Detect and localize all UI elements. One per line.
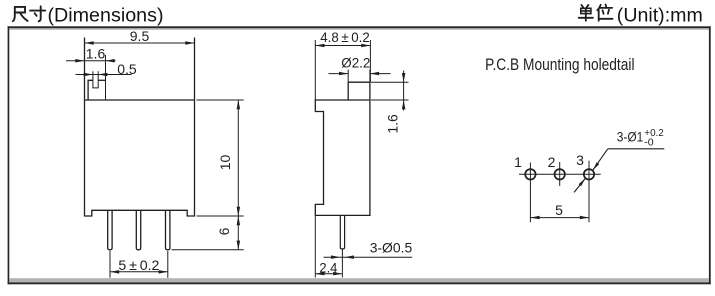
dim 1.6 (66, 46, 116, 63)
dim 9.5 (85, 28, 195, 45)
label 3-Ø1 +0.2/-0 (617, 127, 664, 148)
hole 1 (525, 169, 535, 179)
holes centreline (519, 173, 601, 175)
left view top cap (88, 55, 105, 100)
pin 2 (left view) (136, 210, 140, 250)
title glyph 位 (597, 5, 612, 21)
svg-text:3: 3 (576, 152, 584, 168)
svg-text:1.6: 1.6 (385, 114, 401, 134)
svg-text:3-Ø0.5: 3-Ø0.5 (370, 240, 413, 256)
hole 1 vertical (529, 163, 531, 223)
dim 3-Ø0.5 (324, 240, 413, 259)
svg-text:1.6: 1.6 (86, 46, 106, 62)
svg-text:P.C.B Mounting holedtail: P.C.B Mounting holedtail (485, 56, 634, 74)
hole 2 vertical (559, 162, 561, 186)
hole 2 (555, 169, 565, 179)
side view body top edge (under boss) (348, 99, 370, 101)
svg-text:2: 2 (548, 154, 556, 170)
pin 3 (left view) (166, 210, 170, 250)
dim Ø2.2 (329, 54, 391, 82)
dim 5 (holes) (530, 202, 589, 219)
svg-text:Ø2.2: Ø2.2 (341, 54, 370, 70)
leader 3-Ø1 (574, 149, 664, 193)
dim 4.8±0.2 (315, 29, 370, 100)
hole 3 (584, 169, 594, 179)
screw slot (93, 71, 98, 88)
dim 10 (197, 100, 244, 216)
frame border (8, 26, 10, 284)
pin 1 (left view) (108, 210, 112, 250)
hole 3 vertical (588, 161, 590, 223)
dim 0.5 (76, 61, 137, 77)
dim 1.6 vertical (371, 71, 409, 134)
svg-text:6: 6 (216, 227, 232, 235)
svg-text:1: 1 (514, 154, 522, 170)
side view pin (340, 215, 344, 249)
svg-text:(Unit):mm: (Unit):mm (617, 5, 703, 27)
side view body outline (315, 82, 370, 215)
dim 5±0.2 (110, 251, 168, 278)
dim 2.4 (315, 215, 342, 277)
title glyph 单 (579, 5, 593, 21)
svg-text:10: 10 (217, 155, 233, 171)
left view body outline (85, 38, 195, 217)
svg-text:9.5: 9.5 (130, 28, 150, 44)
svg-text:-0: -0 (644, 136, 653, 148)
left view body top edge (85, 99, 195, 101)
title glyph 寸 (30, 6, 45, 21)
svg-text:3-Ø1: 3-Ø1 (617, 129, 644, 145)
svg-text:5 ± 0.2: 5 ± 0.2 (118, 257, 159, 273)
dim 6 (172, 216, 244, 250)
pin centre extension (341, 249, 343, 274)
svg-text:4.8 ± 0.2: 4.8 ± 0.2 (320, 29, 370, 45)
svg-text:5: 5 (555, 202, 563, 218)
title glyph 尺 (13, 7, 28, 21)
svg-text:(Dimensions): (Dimensions) (48, 5, 164, 27)
svg-text:0.5: 0.5 (117, 61, 137, 77)
svg-text:2.4: 2.4 (319, 259, 337, 275)
